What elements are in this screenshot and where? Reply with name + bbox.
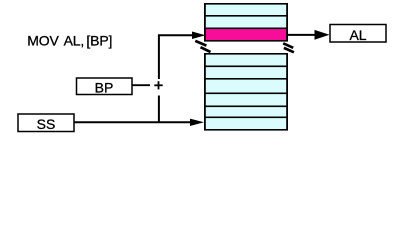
arrow into AL box bbox=[315, 30, 330, 40]
wire SS to memory bbox=[74, 121, 191, 123]
memory cell 8 bbox=[206, 107, 286, 116]
arrow into memory bottom cell bbox=[190, 119, 204, 126]
memory cell 6 bbox=[206, 80, 286, 93]
register box SS bbox=[18, 114, 74, 132]
memory cell 2 bbox=[206, 17, 286, 28]
svg-text:BP: BP bbox=[95, 79, 114, 95]
wire elbow to memory bbox=[158, 34, 194, 36]
svg-text:AL: AL bbox=[349, 27, 366, 43]
memory cell 4 bbox=[206, 55, 286, 66]
memory cell 7 bbox=[206, 94, 286, 105]
plus sign (address adder) bbox=[154, 81, 162, 89]
memory cell 9 bbox=[206, 118, 286, 129]
break marks right bbox=[283, 43, 294, 52]
svg-text:MOV AL, [BP]: MOV AL, [BP] bbox=[27, 33, 112, 49]
break marks left bbox=[195, 41, 210, 52]
wire memory to AL bbox=[288, 34, 316, 36]
highlighted memory cell (addressed byte) bbox=[206, 29, 286, 40]
register box BP bbox=[77, 78, 133, 95]
memory cell 5 bbox=[206, 67, 286, 78]
svg-text:SS: SS bbox=[37, 116, 56, 132]
arrow into highlighted cell bbox=[192, 32, 206, 40]
wire BP to adder bbox=[132, 84, 150, 86]
wire adder vertical upper bbox=[158, 35, 160, 80]
memory cell 1 bbox=[206, 5, 286, 15]
memory stack frame bbox=[204, 3, 288, 131]
wire adder vertical lower bbox=[158, 96, 160, 123]
memory break band bbox=[204, 42, 288, 53]
register box AL bbox=[330, 25, 386, 43]
